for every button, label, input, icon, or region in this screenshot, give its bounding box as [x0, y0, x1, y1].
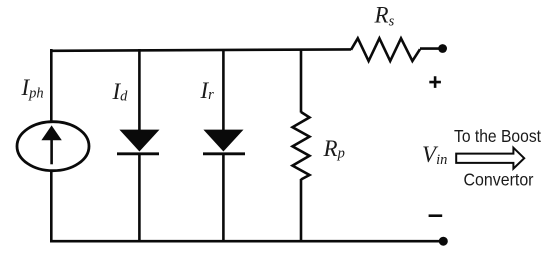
resistor Rs zigzag: [351, 38, 420, 61]
svg-text:Ir: Ir: [200, 78, 215, 103]
diode D2 cathode bar: [203, 152, 245, 155]
svg-text:Rp: Rp: [323, 136, 345, 162]
svg-text:Rs: Rs: [374, 3, 395, 30]
plus sign: [429, 76, 441, 88]
block arrow to boost convertor: [456, 148, 524, 169]
current source U1 ellipse: [17, 122, 89, 171]
svg-text:Convertor: Convertor: [464, 170, 534, 190]
wire left vertical (Iph branch, above source): [50, 49, 53, 122]
diode D2 (Ir) triangle: [203, 130, 243, 152]
svg-text:To the Boost: To the Boost: [454, 126, 541, 146]
wire Ir branch lower: [222, 153, 225, 243]
svg-text:Id: Id: [112, 79, 129, 105]
wire Rp branch upper: [300, 49, 303, 113]
node - terminal dot: [439, 237, 448, 246]
wire Rp branch lower: [300, 179, 303, 243]
current source arrow shaft: [50, 139, 53, 164]
wire Id branch lower: [138, 153, 141, 243]
svg-text:Iph: Iph: [21, 75, 44, 102]
wire bottom horizontal bus: [51, 240, 442, 243]
wire left vertical (Iph branch, below source): [50, 171, 53, 243]
resistor Rp zigzag: [293, 112, 310, 180]
wire Id branch upper: [138, 49, 141, 131]
node + terminal dot: [438, 44, 447, 53]
wire Ir branch upper: [222, 49, 225, 131]
wire Rs to + terminal: [420, 47, 440, 50]
current source arrowhead: [41, 125, 61, 140]
diode D1 (Id) triangle: [119, 130, 159, 152]
wire top horizontal bus: [51, 49, 351, 50]
minus sign: [429, 214, 443, 217]
diode D1 cathode bar: [117, 152, 159, 155]
svg-text:Vin: Vin: [422, 142, 447, 168]
